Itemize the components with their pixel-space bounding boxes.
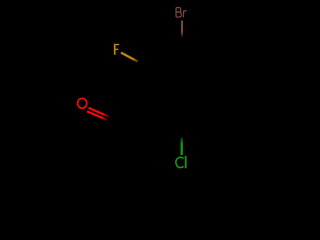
atom label Br [176, 8, 187, 18]
bond C2-F colored stub [121, 53, 138, 62]
bond C7-C8 methyl black [108, 125, 115, 160]
atom label F [114, 44, 119, 55]
atom label O [78, 98, 87, 108]
bond C3-C7 carbonyl black [115, 107, 149, 125]
double bond O=C7 lower red line [87, 111, 108, 120]
bond C4-Cl black half [181, 126, 183, 140]
bond C4-Cl colored stub [181, 138, 183, 155]
benzene ring C1-C6 (black bonds, invisible on black) [149, 53, 214, 126]
double bond O=C7 upper red line [89, 108, 109, 117]
bond C1-Br colored stub [181, 21, 183, 37]
atom label Cl [176, 156, 186, 168]
